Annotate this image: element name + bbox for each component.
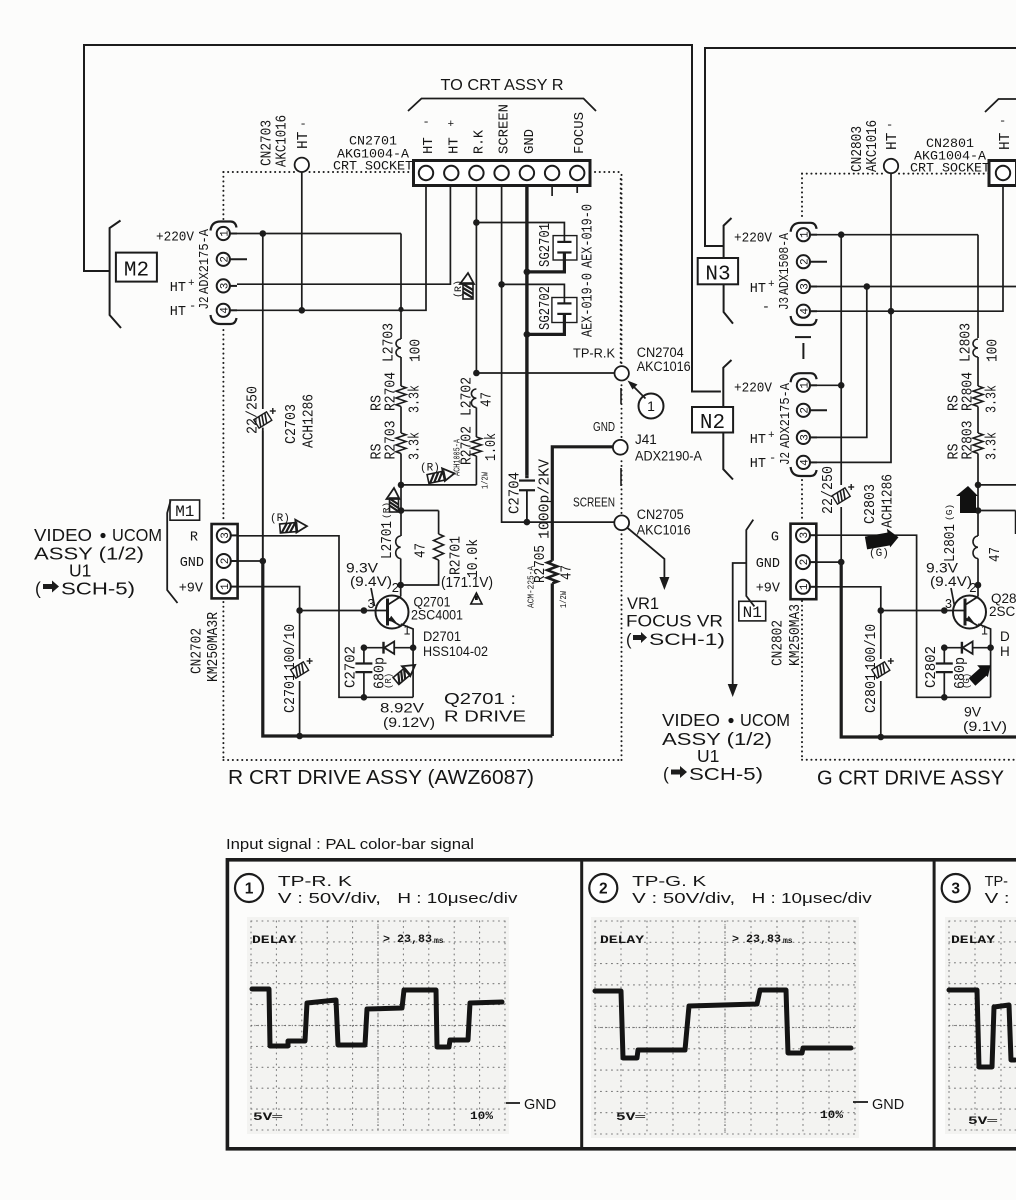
graticule panel 2	[594, 921, 596, 1134]
svg-text:+: +	[448, 119, 455, 131]
dashes below CN2704	[620, 388, 622, 404]
svg-text:GND: GND	[524, 1097, 556, 1113]
wire +220V link	[840, 235, 842, 386]
resistor R2705 47 ACM-225-A	[551, 583, 554, 736]
brace G socket	[985, 99, 1016, 112]
wire socket pin6 stub	[551, 186, 553, 197]
svg-text:4: 4	[220, 307, 232, 314]
svg-text:2: 2	[800, 258, 812, 265]
wire base row G	[881, 610, 965, 612]
M2 bracket	[110, 221, 121, 329]
GND rail (bold)	[262, 428, 264, 561]
wire G signal path	[816, 535, 990, 697]
svg-text:SG2701: SG2701	[538, 223, 554, 267]
diode D2701 HSS104-02	[364, 647, 413, 649]
junction chain/R.K-leg	[398, 482, 405, 489]
capacitor C2802 680p	[943, 648, 945, 664]
svg-text:GND: GND	[180, 556, 204, 571]
svg-text:ACH1286: ACH1286	[302, 394, 318, 448]
svg-text:H : 10μsec/div: H : 10μsec/div	[397, 891, 518, 907]
svg-text:-: -	[423, 115, 430, 129]
junction R.K/SG2701	[473, 219, 480, 226]
wire emitter	[401, 624, 413, 697]
svg-text:-: -	[762, 301, 770, 316]
wire +9V path	[238, 587, 300, 659]
M1 box	[170, 500, 200, 520]
connector J2 ADX2175-A (G)	[791, 373, 817, 382]
svg-text:D2701: D2701	[423, 629, 461, 644]
svg-text:HT: HT	[750, 457, 766, 472]
svg-text:AEX-019-0: AEX-019-0	[581, 273, 597, 337]
svg-text:C2704: C2704	[508, 472, 524, 514]
svg-text:22/250: 22/250	[821, 466, 837, 514]
svg-text:V : 50V/div,: V : 50V/div,	[985, 891, 1016, 907]
junction SCREEN/SG2702	[498, 281, 505, 288]
wire HT- row G	[817, 186, 1003, 312]
svg-text:2: 2	[220, 558, 232, 565]
svg-text:ADX1508-A: ADX1508-A	[777, 233, 793, 295]
svg-text:CN2802: CN2802	[771, 620, 787, 666]
N3 bracket	[724, 218, 733, 324]
wire SCREEN column	[502, 186, 615, 523]
svg-text:(: (	[663, 764, 669, 784]
svg-text:1: 1	[800, 231, 812, 238]
svg-text:R2702: R2702	[460, 426, 476, 465]
svg-text:3.3k: 3.3k	[985, 385, 1001, 413]
wire R signal path	[238, 536, 414, 698]
svg-text:ADX2175-A: ADX2175-A	[778, 382, 794, 448]
svg-text:C2803: C2803	[863, 484, 879, 524]
wire +220V row G	[817, 234, 978, 236]
graticule panel 3 (clipped)	[948, 921, 950, 1130]
svg-text:47: 47	[560, 565, 576, 580]
svg-text:UCOM: UCOM	[112, 525, 162, 545]
svg-text:TP-R.K: TP-R.K	[573, 346, 615, 361]
svg-text:GND: GND	[756, 557, 780, 572]
svg-text:3: 3	[800, 434, 812, 441]
scope panel 2 header	[589, 874, 617, 902]
svg-text:ADX2190-A: ADX2190-A	[635, 449, 702, 464]
svg-text:(9.12V): (9.12V)	[383, 714, 435, 730]
svg-text:1/2W: 1/2W	[481, 472, 491, 489]
svg-text:C2702: C2702	[344, 646, 360, 688]
svg-text:3.3k: 3.3k	[408, 432, 424, 460]
svg-text:SCH-5): SCH-5)	[61, 579, 135, 599]
svg-text:R: R	[190, 531, 198, 546]
arrow (G) near D2801	[966, 659, 995, 688]
svg-text:R2703: R2703	[384, 421, 400, 460]
svg-text:5V═: 5V═	[968, 1116, 998, 1128]
svg-text:ACH1286: ACH1286	[881, 474, 897, 528]
svg-text:GND: GND	[522, 129, 538, 154]
svg-text:1: 1	[799, 583, 811, 590]
arrow (G) near CN2802	[864, 527, 900, 551]
svg-text:3.3k: 3.3k	[985, 432, 1001, 460]
svg-text:CN2704: CN2704	[637, 345, 684, 360]
svg-text:H : 10μsec/div: H : 10μsec/div	[752, 891, 873, 907]
wire +220V row R	[237, 233, 401, 235]
wire base row	[300, 610, 388, 612]
wire emitter G	[978, 624, 990, 697]
wire GND column (bold)	[525, 186, 528, 476]
svg-text:KM250MA3: KM250MA3	[788, 604, 804, 666]
N1 bracket	[746, 520, 754, 607]
svg-text:HT: HT	[446, 137, 462, 154]
junction GND/SG2702 return	[524, 331, 531, 338]
svg-text:HT: HT	[750, 433, 766, 448]
svg-text:AKC1016: AKC1016	[637, 523, 691, 538]
svg-text:M2: M2	[124, 260, 149, 283]
inductor L2701 47	[396, 536, 401, 559]
svg-text:+9V: +9V	[756, 582, 781, 597]
svg-text:1: 1	[220, 230, 232, 237]
svg-text:4: 4	[800, 308, 812, 315]
svg-text:CN2703: CN2703	[260, 120, 276, 166]
svg-text:ADX2175-A: ADX2175-A	[197, 228, 213, 294]
svg-text:VR1: VR1	[627, 595, 659, 613]
diode D2801	[944, 647, 990, 649]
svg-text:SCREEN: SCREEN	[573, 495, 615, 510]
wire +220V loop G (outer box right)	[705, 48, 1016, 246]
capacitor C2801 100/10	[872, 662, 890, 678]
GND rail G (bold)	[841, 562, 1016, 737]
chain L2803/R2804/R2803	[977, 235, 979, 338]
svg-text:> 23,83: > 23,83	[383, 934, 432, 946]
svg-text:680p: 680p	[373, 657, 389, 689]
junction +220V/C2703	[260, 230, 267, 237]
svg-text:TO CRT ASSY R: TO CRT ASSY R	[441, 77, 564, 94]
svg-text:C2703: C2703	[284, 404, 300, 444]
connector CN2802 KM250MA3	[791, 524, 817, 600]
svg-text:L2703: L2703	[382, 323, 398, 362]
svg-text:H: H	[1000, 644, 1010, 659]
wire HT- row R	[237, 186, 426, 311]
svg-text:HSS104-02: HSS104-02	[423, 644, 488, 659]
svg-text:47: 47	[414, 543, 430, 558]
svg-text:2: 2	[220, 256, 232, 263]
svg-text:HT: HT	[170, 281, 186, 296]
svg-text:1: 1	[220, 583, 232, 590]
scope panel box	[227, 860, 1016, 1149]
svg-text:N2: N2	[700, 412, 725, 435]
GND marker panel 2	[853, 1101, 868, 1103]
svg-text:AEX-019-0: AEX-019-0	[581, 204, 597, 268]
svg-text:+220V: +220V	[156, 231, 195, 246]
svg-text:R2701: R2701	[449, 536, 465, 575]
waveform trace panel 2	[595, 990, 851, 1058]
svg-text:GND: GND	[872, 1097, 904, 1113]
svg-text:4: 4	[800, 459, 812, 466]
svg-text:CN2705: CN2705	[637, 507, 684, 522]
junction C2703/GND row	[260, 558, 267, 565]
svg-text:L2801: L2801	[943, 524, 959, 562]
svg-text:VIDEO: VIDEO	[662, 710, 720, 730]
svg-text:1: 1	[647, 398, 655, 414]
svg-text:HT: HT	[170, 305, 186, 320]
svg-text:V : 50V/div,: V : 50V/div,	[632, 891, 735, 907]
wire RK to CN2704	[476, 372, 614, 374]
svg-text:DELAY: DELAY	[252, 935, 297, 947]
arrow to VIDEO UCOM text	[733, 563, 746, 688]
svg-text:22/250: 22/250	[246, 386, 262, 434]
svg-text:G: G	[771, 531, 779, 546]
svg-text:(G): (G)	[869, 548, 889, 560]
M2 box	[116, 253, 157, 282]
junction HT-/CN2703	[299, 307, 306, 314]
svg-text:1: 1	[245, 881, 254, 898]
svg-text:SCREEN: SCREEN	[497, 104, 513, 154]
svg-text:-: -	[189, 299, 196, 313]
capacitor C2701 100/10	[291, 662, 309, 678]
svg-text:> 23,83: > 23,83	[732, 934, 781, 946]
svg-text:SCH-5): SCH-5)	[689, 764, 763, 784]
circled 1 pointer	[639, 394, 664, 419]
svg-text:Q2701 :: Q2701 :	[444, 691, 516, 708]
svg-text:10%: 10%	[470, 1111, 493, 1123]
divider mark J3/J2	[795, 336, 811, 338]
svg-text:HT: HT	[998, 132, 1014, 150]
GND marker panel 1	[506, 1102, 520, 1104]
svg-text:R2803: R2803	[961, 421, 977, 460]
wire collector	[400, 585, 402, 597]
M1 bracket	[167, 501, 177, 603]
svg-text:L2701: L2701	[380, 521, 396, 559]
svg-text:R.K: R.K	[471, 129, 487, 154]
wire +9V path G	[816, 587, 881, 659]
arrow (R) near D2701	[391, 659, 419, 685]
svg-text:AKC1016: AKC1016	[275, 115, 291, 167]
svg-text:+: +	[188, 278, 195, 290]
svg-text:Input signal : PAL color-bar s: Input signal : PAL color-bar signal	[226, 837, 474, 853]
waveform trace panel 3	[949, 990, 1015, 1067]
transistor Q2801	[953, 596, 986, 629]
test point CN2703 HT-	[295, 158, 309, 172]
svg-text:N3: N3	[705, 264, 730, 287]
svg-text:SCH-1): SCH-1)	[649, 631, 725, 649]
svg-text:N1: N1	[743, 604, 762, 622]
svg-text:2: 2	[799, 559, 811, 566]
svg-text:C2701: C2701	[283, 673, 299, 713]
svg-text:(: (	[35, 579, 41, 599]
svg-text:-: -	[999, 114, 1006, 128]
svg-text:10.0k: 10.0k	[466, 539, 482, 578]
wire HT+ link	[817, 287, 867, 438]
connector CN2702 KM250MA3R	[212, 524, 238, 598]
svg-text:J2: J2	[778, 452, 794, 465]
arrow (G) near L2801	[956, 486, 978, 513]
wire R.K column	[475, 186, 477, 374]
spark gap SG2702	[502, 284, 565, 299]
svg-text:DELAY: DELAY	[951, 935, 996, 947]
svg-text:+220V: +220V	[734, 232, 773, 247]
svg-text:100: 100	[409, 339, 425, 362]
svg-text:(9.4V): (9.4V)	[930, 573, 972, 589]
connector J3 ADX1508-A	[791, 223, 817, 232]
svg-text:FOCUS VR: FOCUS VR	[626, 613, 723, 631]
svg-text:ms: ms	[783, 937, 793, 946]
capacitor C2803 22/250	[840, 385, 842, 485]
svg-text:J3: J3	[777, 297, 793, 310]
resistor R2702 1.0k	[471, 437, 481, 456]
svg-text:680p: 680p	[953, 657, 969, 689]
wire GND stub CN2702	[238, 560, 263, 562]
svg-text:CN2803: CN2803	[850, 126, 866, 172]
resistor R2701 10.0k	[434, 534, 444, 560]
resistor R2704 RS 3.3k	[396, 386, 406, 407]
svg-text:R CRT DRIVE ASSY (AWZ6087): R CRT DRIVE ASSY (AWZ6087)	[228, 766, 534, 789]
svg-text:J41: J41	[635, 432, 657, 447]
arrow (R) near L2701	[387, 488, 400, 512]
inductor L2703 100	[400, 234, 402, 340]
wire R2701 top	[401, 510, 439, 512]
svg-text:D: D	[1000, 629, 1010, 644]
inductor L2801 47	[973, 536, 978, 559]
svg-text:R DRIVE: R DRIVE	[444, 709, 526, 726]
CRT socket CN2801 (clipped)	[989, 161, 1016, 186]
svg-text:UCOM: UCOM	[740, 710, 790, 730]
svg-text:47: 47	[988, 547, 1004, 562]
svg-text:(9.4V): (9.4V)	[350, 573, 392, 589]
capacitor C2703 22/250	[262, 234, 264, 410]
capacitor C2702 680p	[363, 648, 365, 664]
svg-text:1/2W: 1/2W	[559, 591, 569, 608]
svg-text:100/10: 100/10	[283, 624, 299, 670]
inductor L2702 47	[471, 389, 476, 408]
svg-text:100: 100	[986, 339, 1002, 362]
svg-text:3: 3	[800, 283, 812, 290]
svg-text:L2702: L2702	[460, 377, 476, 416]
svg-text:HT: HT	[885, 132, 901, 150]
svg-text:KM250MA3R: KM250MA3R	[206, 612, 222, 682]
svg-text:R2804: R2804	[961, 372, 977, 411]
svg-text:TP-G. K: TP-G. K	[632, 874, 706, 890]
svg-text:-: -	[886, 118, 893, 132]
scope panel 1 header	[235, 874, 263, 902]
CRT socket CN2701	[414, 161, 591, 186]
test point CN2705 SCREEN	[614, 515, 629, 530]
svg-text:47: 47	[480, 392, 496, 407]
svg-text:(9.1V): (9.1V)	[963, 718, 1007, 734]
svg-text:(171.1V): (171.1V)	[441, 575, 493, 591]
svg-text:+220V: +220V	[734, 382, 773, 397]
N2 bracket	[723, 360, 733, 480]
svg-text:TP-R. K: TP-R. K	[278, 874, 352, 890]
svg-text:AKC1016: AKC1016	[865, 120, 881, 172]
svg-text:3.3k: 3.3k	[408, 385, 424, 413]
svg-text:CN2702: CN2702	[190, 628, 206, 674]
dotted outline G CRT DRIVE ASSY	[801, 174, 803, 218]
test point CN2803 HT-	[884, 159, 898, 173]
svg-text:1: 1	[800, 382, 812, 389]
svg-text:M1: M1	[175, 503, 194, 521]
svg-text:3: 3	[951, 881, 960, 898]
svg-text:L2803: L2803	[959, 323, 975, 362]
graticule panel 1	[250, 921, 252, 1130]
svg-text:DELAY: DELAY	[600, 935, 645, 947]
svg-text:J2: J2	[197, 297, 213, 310]
svg-text:G CRT DRIVE ASSY: G CRT DRIVE ASSY	[817, 767, 1004, 790]
wire HT+ row G	[817, 286, 1016, 288]
svg-text:AKC1016: AKC1016	[637, 359, 691, 374]
svg-text:HT: HT	[421, 137, 437, 154]
connector J2 ADX2175-A	[211, 222, 237, 231]
svg-text:2: 2	[392, 580, 399, 595]
resistor R2703 RS 3.3k	[396, 433, 406, 454]
scope photo bg 1	[247, 917, 509, 1134]
svg-text:3: 3	[220, 283, 232, 290]
svg-text:(R): (R)	[453, 280, 465, 298]
wire GND stub CN2802	[816, 561, 841, 563]
svg-text:U1: U1	[69, 561, 91, 581]
svg-text:HT: HT	[750, 282, 766, 297]
svg-text:C2801: C2801	[864, 673, 880, 713]
svg-text:2SC4001: 2SC4001	[411, 608, 463, 623]
svg-text:HT: HT	[296, 131, 312, 149]
wire collector G	[977, 585, 979, 597]
svg-text:TP-: TP-	[985, 874, 1009, 890]
svg-text:5V═: 5V═	[253, 1112, 283, 1124]
wire chain to R2702 bottom	[401, 484, 476, 486]
transistor Q2701 2SC4001	[376, 596, 409, 629]
N3 box	[698, 258, 738, 284]
svg-text:CRT SOCKET: CRT SOCKET	[910, 161, 990, 176]
arrow (R) near HT+	[460, 273, 474, 299]
svg-text:100/10: 100/10	[864, 624, 880, 670]
brace TO CRT ASSY R	[408, 99, 596, 112]
svg-text:C2802: C2802	[924, 646, 940, 688]
svg-text:(: (	[626, 631, 632, 649]
junction L2701 top	[398, 507, 405, 514]
svg-text:+: +	[768, 430, 775, 442]
wire HT+ row R	[237, 186, 450, 285]
junction GND/SG2701 return	[524, 269, 531, 276]
svg-text:2: 2	[599, 881, 608, 898]
scope panel 3 header	[942, 874, 970, 902]
svg-text:+9V: +9V	[179, 582, 204, 597]
arrow CN2705 to VR1	[627, 528, 664, 582]
svg-text:U1: U1	[697, 746, 719, 766]
svg-text:10%: 10%	[820, 1110, 843, 1122]
wire +220V loop R (outer box left)	[84, 45, 721, 392]
junction C2704/SCREEN row	[524, 519, 531, 526]
svg-text:1.0k: 1.0k	[484, 433, 500, 461]
test point J41 ADX2190-A GND	[613, 440, 628, 455]
svg-text:(G): (G)	[944, 504, 955, 521]
svg-text:V : 50V/div,: V : 50V/div,	[278, 891, 381, 907]
dotted outline R CRT DRIVE ASSY	[222, 172, 224, 219]
waveform trace panel 1	[252, 989, 502, 1047]
svg-text:CRT SOCKET: CRT SOCKET	[333, 159, 413, 174]
svg-text:FOCUS: FOCUS	[572, 112, 588, 154]
svg-text:3: 3	[799, 532, 811, 539]
svg-text:R2705: R2705	[533, 545, 549, 583]
capacitor C2704 1000p/2KV	[525, 475, 528, 478]
wire HT- link	[817, 311, 891, 462]
svg-text:GND: GND	[593, 419, 615, 434]
svg-text:R2704: R2704	[384, 372, 400, 411]
svg-text:-: -	[769, 451, 776, 465]
svg-text:3: 3	[220, 532, 232, 539]
svg-text:VIDEO: VIDEO	[34, 525, 92, 545]
svg-text:-: -	[300, 117, 307, 131]
svg-text:+: +	[768, 279, 775, 291]
N2 box	[692, 407, 733, 433]
svg-text:5V═: 5V═	[616, 1112, 646, 1124]
test point CN2704	[615, 366, 629, 380]
spark gap SG2701	[476, 223, 564, 238]
svg-text:SG2702: SG2702	[538, 286, 554, 330]
svg-text:2SC: 2SC	[989, 604, 1016, 619]
